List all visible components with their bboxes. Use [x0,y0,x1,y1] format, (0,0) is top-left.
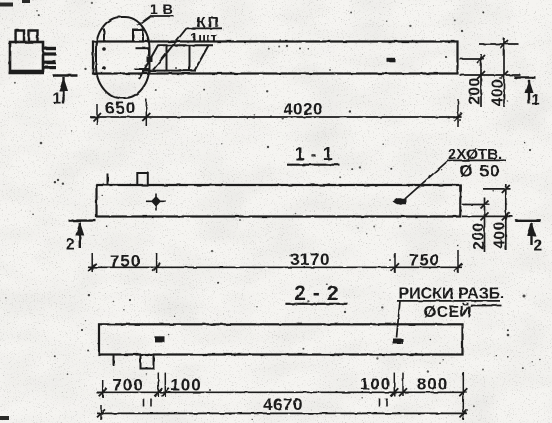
svg-text:400: 400 [490,79,507,106]
dim line 700-100-100-800 [96,391,467,393]
svg-text:2: 2 [534,238,543,255]
svg-text:2ХØТВ.: 2ХØТВ. [448,146,502,163]
lifting point diamond [151,196,161,207]
svg-text:650: 650 [105,99,136,118]
section arrow 2 left bar [69,219,97,221]
KP right slant [195,45,209,70]
section arrow 2 right bar [515,220,541,222]
KP shelf leader diagonal [153,28,187,70]
tick 4020 right [454,113,462,121]
title 2-2 underline [285,303,348,305]
ext line right 4020 [457,99,459,127]
svg-text:1шт: 1шт [190,30,218,46]
leader to hole label [402,160,449,201]
extension line bottom view1 [460,74,521,76]
small dash pair right2 [386,399,388,407]
KP bottom line [142,70,196,72]
dim line 4670 [97,412,467,414]
extension line bottom view2 [462,215,513,217]
stamp plate bar 2 [43,52,56,55]
tick 200 bottom v1 [477,71,485,79]
small dash pair left [143,399,145,407]
riski label underline [397,300,500,302]
bracket rebar top line [136,47,150,49]
ext line v2 right [457,250,459,273]
tick 750L left [88,263,96,271]
smudge bottom-left [0,416,9,420]
svg-text:1В: 1В [150,1,178,17]
vertical dim line 200 view1 [480,54,482,107]
end view stamp square [10,42,43,71]
hole label underline [447,159,506,161]
svg-text:1: 1 [532,92,541,109]
stamp plate bar 4 [43,66,56,69]
tick 100R right [399,388,407,396]
svg-text:4670: 4670 [263,395,303,414]
stamp plate bar 3 [43,61,56,65]
vertical dim line 400 view2 [505,184,507,250]
hole mark view 2 [393,198,407,204]
hole mark view1 [387,58,396,62]
tick 200 top v1 [477,55,485,63]
tick 400 bottom v2 [502,212,510,220]
tick 4670 right [460,409,468,417]
section arrow 2 left shaft [79,223,81,249]
lifting point cross horizontal [146,200,166,202]
ext line v2 mid-left [156,253,158,273]
svg-text:КП: КП [197,14,221,31]
section arrow 2 right head [527,222,536,236]
mark riska right view3 [393,339,403,345]
extension line 400 top view2 [483,188,511,190]
tick 100R left [390,388,398,396]
svg-text:РИСКИ РАЗБ.: РИСКИ РАЗБ. [399,285,505,302]
svg-text:2 - 2: 2 - 2 [294,282,339,305]
svg-text:Ø 50: Ø 50 [460,162,501,181]
stamp loop 2 [29,31,38,43]
section arrow 1 left shaft [62,77,64,104]
ext line v2 left [91,253,93,272]
lifting point cross vertical [155,194,157,211]
svg-text:ØСЕЙ: ØСЕЙ [424,302,472,321]
section arrow 2 left head [75,222,84,236]
svg-text:750: 750 [110,252,141,271]
KP left slant [139,45,158,79]
svg-text:700: 700 [112,376,143,395]
small dash pair left2 [150,399,152,407]
lifting loop tick left [103,29,105,42]
tick 700 right [154,388,162,396]
ext line v3 pairB1 [393,373,395,396]
svg-text:2: 2 [66,237,75,254]
svg-text:3170: 3170 [290,250,330,269]
anchor dot lower [102,66,106,70]
vertical dim line 200 view2 [484,198,486,253]
extension line 400 top view1 [479,43,519,45]
tick 200 top v2 [481,201,489,209]
vertical dim line 400 view1 [503,38,505,107]
KP rung 2 [189,45,191,70]
bracket rebar bottom line [135,68,149,70]
ext line mid 650/4020 [145,99,147,126]
svg-text:400: 400 [492,221,509,248]
leader riski to mark [397,301,401,338]
beam body view 1 [93,42,458,74]
ext line left 650 [96,104,98,125]
bottom loop tab view3 [141,355,154,369]
detail ellipse [96,17,150,98]
anchor dot upper [102,47,106,51]
stamp baseline [9,72,45,74]
loop tab view2 [137,173,148,185]
ext line v3 right [462,372,464,420]
tick 100L right [161,388,169,396]
mark riska left view3 [155,337,165,343]
osei right shelf line [470,305,501,307]
ext line v3 pairB2 [402,373,404,396]
tick 750R right [454,263,462,271]
extension line 200 top view1 [460,58,485,60]
svg-text:100: 100 [360,375,391,394]
lifting loop tab view1 [133,30,143,42]
beam body view 2 [97,185,461,217]
tick 700 left [99,388,107,396]
tick 400 bottom v1 [500,71,508,79]
svg-text:100: 100 [170,376,201,395]
title 1-1 underline [287,164,340,166]
svg-text:1: 1 [53,91,62,108]
beam body view 3 [99,324,463,354]
section arrow 1 right bar [514,76,536,78]
loop tick view2 [107,174,109,186]
section arrow 1 right shaft [528,80,530,104]
tick 400 top v1 [500,40,508,48]
section arrow 2 right shaft [530,223,532,245]
tick 800 right [459,388,467,396]
svg-text:1 - 1: 1 - 1 [295,144,334,164]
extension line 200 top view2 [462,204,490,206]
svg-text:750: 750 [409,251,440,270]
tick 400 top v2 [502,185,510,193]
svg-text:4020: 4020 [283,100,323,119]
dim line 750-3170-750 [88,266,462,268]
ext 4670 left [100,405,102,420]
ext line v3 pairA1 [157,373,159,397]
tick 200 bottom v2 [481,212,489,220]
svg-text:200: 200 [467,77,484,104]
small dash pair right1 [379,399,381,407]
tick 3170 right [391,263,399,271]
tick 650 right [142,113,150,121]
bracket rebar vertical [148,48,150,56]
leader 1V diagonal [138,16,151,26]
section arrow 1 right head [525,79,534,93]
tick 650 left [93,113,101,121]
dim line 650-4020 [90,116,462,118]
svg-text:800: 800 [417,375,448,394]
KP element parallelogram [158,44,214,46]
section arrow 1 left bar [53,74,78,76]
stamp plate bar 1 [43,47,56,50]
smudge top-left corner [0,3,13,7]
tick 4670 left [97,409,105,417]
section arrow 1 left head [59,77,68,91]
leader to label 1V [150,15,174,17]
stamp loop 1 [16,31,24,43]
KP rung 1 [166,45,168,70]
tick 750L right [153,263,161,271]
ext line v3 pairA2 [164,373,166,397]
svg-text:200: 200 [471,222,488,249]
bracket blob [147,57,153,63]
ext line v2 mid-right [394,253,396,273]
KP shelf line [187,27,223,29]
ext line v3 left [102,380,104,398]
bottom tick view3 [113,355,115,367]
scan smudges [0,0,30,420]
